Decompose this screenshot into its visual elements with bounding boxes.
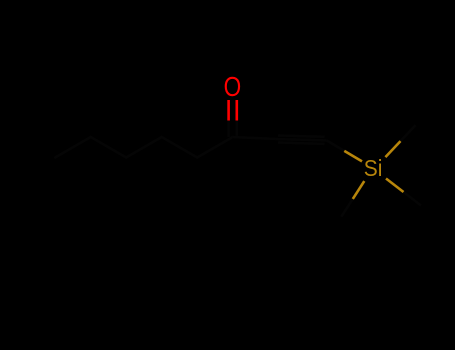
- Si half-bond to methyl down-right (goldenrod): [386, 179, 404, 193]
- wire C=O lower halves (carbon side, near-black): [229, 119, 237, 138]
- svg-text:Si: Si: [364, 155, 383, 181]
- wire C2#C1 triple bond (near-black, three parallel lines): [276, 136, 327, 144]
- Si half-bond to C1 (goldenrod): [344, 151, 362, 162]
- carbonyl C=O double bond, oxygen halves (red): [229, 100, 237, 121]
- wire pentyl chain C3-C8 (carbon bonds, near-black): [55, 137, 233, 158]
- Si half-bond to methyl down-left (goldenrod): [353, 181, 365, 199]
- wire methyl bond carbon halves (near-black): [341, 125, 421, 217]
- Si half-bond to methyl up-right (goldenrod): [385, 141, 400, 157]
- svg-text:O: O: [224, 71, 242, 102]
- wire C3-C2 single bond (near-black): [233, 137, 276, 139]
- wire C1-Si bond carbon half (near-black): [327, 140, 345, 151]
